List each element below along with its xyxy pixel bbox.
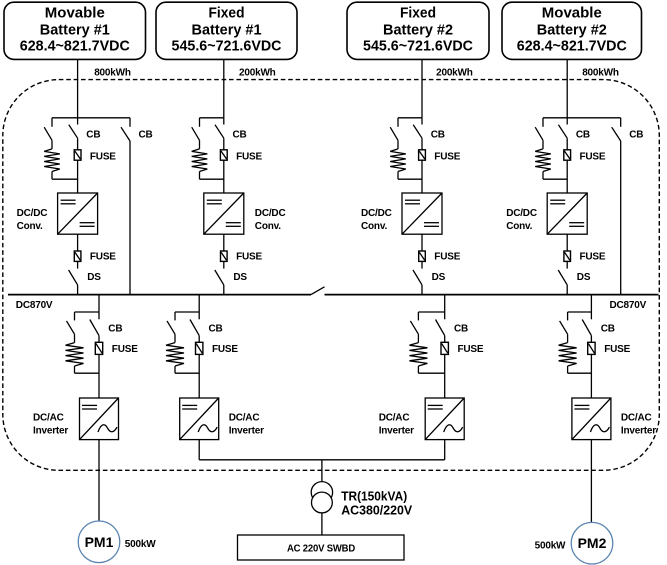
svg-text:545.6~721.6VDC: 545.6~721.6VDC xyxy=(172,38,282,55)
circuit breaker CB I2 xyxy=(198,312,200,319)
disconnect switch DS B4 xyxy=(566,261,568,268)
svg-text:DS: DS xyxy=(577,272,591,283)
svg-text:DC/AC: DC/AC xyxy=(379,413,410,424)
DC/AC inverter UI3 xyxy=(425,398,464,440)
reactor coil B3 xyxy=(397,140,399,149)
fuse F4a xyxy=(566,138,568,150)
fuse F4b xyxy=(566,234,568,251)
DC/DC converter U2 xyxy=(204,193,244,234)
CB contact (reactor path) I2 xyxy=(174,312,176,320)
svg-text:AC 220V SWBD: AC 220V SWBD xyxy=(287,543,355,554)
wire coil to rejoin node I3 xyxy=(417,366,419,373)
svg-text:628.4~821.7VDC: 628.4~821.7VDC xyxy=(20,38,130,55)
wire battery B2 to tee xyxy=(223,59,225,117)
circuit breaker CB B4 xyxy=(566,118,568,125)
CB contact (reactor path) B3 xyxy=(397,118,399,127)
wire tee xyxy=(52,117,130,119)
svg-text:FUSE: FUSE xyxy=(580,252,606,263)
wire fuse to DC/DC B4 xyxy=(566,160,568,193)
svg-text:FUSE: FUSE xyxy=(604,344,630,355)
fuse FI4 xyxy=(590,336,592,343)
svg-text:628.4~821.7VDC: 628.4~821.7VDC xyxy=(517,38,627,55)
wire tee xyxy=(418,311,444,313)
fuse F2b xyxy=(223,234,225,251)
wire fuse to DC/DC B3 xyxy=(421,160,423,193)
wire fuse to DC/DC B1 xyxy=(77,160,79,193)
DC870V bus right segment xyxy=(325,294,659,296)
wire bus to tee I3 xyxy=(444,295,446,312)
wire coil to rejoin node I2 xyxy=(174,366,176,373)
svg-text:800kWh: 800kWh xyxy=(582,68,619,79)
CB contact (reactor path) B2 xyxy=(199,118,201,127)
reactor coil I3 xyxy=(417,334,419,342)
fuse F3b xyxy=(421,234,423,251)
svg-text:TR(150kVA): TR(150kVA) xyxy=(341,488,407,503)
battery B2 box xyxy=(156,2,297,59)
DC/DC converter U1 xyxy=(58,193,98,234)
reactor coil B4 xyxy=(542,140,544,149)
svg-text:FUSE: FUSE xyxy=(90,151,116,162)
battery B1 box xyxy=(4,2,146,59)
svg-text:CB: CB xyxy=(209,323,223,334)
svg-text:DC870V: DC870V xyxy=(610,300,647,311)
wire fuse to inverter I4 xyxy=(590,354,592,398)
disconnect switch DS B1 xyxy=(77,261,79,268)
wire DS to bus B2 xyxy=(223,285,225,295)
svg-text:FUSE: FUSE xyxy=(434,252,460,263)
wire transformer to SWBD xyxy=(321,513,323,535)
svg-text:FUSE: FUSE xyxy=(236,252,262,263)
propulsion motor PM2 xyxy=(571,522,613,564)
wire bus to tee I2 xyxy=(198,295,200,312)
battery B4 box xyxy=(502,2,642,59)
svg-text:CB: CB xyxy=(139,130,153,141)
wire coil to rejoin node I1 xyxy=(74,366,76,373)
svg-text:CB: CB xyxy=(601,323,615,334)
svg-text:FUSE: FUSE xyxy=(434,151,460,162)
svg-text:Inverter: Inverter xyxy=(33,426,68,437)
svg-text:DC/DC: DC/DC xyxy=(17,208,48,219)
fuse FI3 xyxy=(444,336,446,343)
svg-text:Fixed: Fixed xyxy=(209,5,245,22)
wire tee xyxy=(75,311,100,313)
svg-text:500kW: 500kW xyxy=(125,539,156,550)
fuse F1a xyxy=(77,138,79,150)
svg-text:Battery #1: Battery #1 xyxy=(192,22,262,39)
svg-text:Battery #1: Battery #1 xyxy=(40,22,110,39)
svg-text:Movable: Movable xyxy=(45,5,105,22)
svg-text:PM1: PM1 xyxy=(85,534,114,550)
reactor coil I2 xyxy=(174,334,176,342)
svg-text:DS: DS xyxy=(87,272,101,283)
CB contact (reactor path) B1 xyxy=(51,118,53,127)
svg-text:Fixed: Fixed xyxy=(400,5,436,22)
svg-text:DC/DC: DC/DC xyxy=(361,208,392,219)
svg-text:CB: CB xyxy=(431,130,445,141)
svg-text:Conv.: Conv. xyxy=(17,221,43,232)
propulsion motor PM1 xyxy=(78,521,120,563)
wire tee xyxy=(543,117,621,119)
reactor coil I1 xyxy=(74,334,76,342)
disconnect switch DS B3 xyxy=(421,261,423,268)
wire tee xyxy=(175,311,199,313)
svg-text:DS: DS xyxy=(432,272,446,283)
circuit breaker CB B3 xyxy=(421,118,423,125)
wire tee xyxy=(568,311,592,313)
svg-text:CB: CB xyxy=(629,130,643,141)
dashed enclosure boundary xyxy=(3,80,660,471)
disconnect switch DS B2 xyxy=(223,261,225,268)
circuit breaker CB I3 xyxy=(444,312,446,319)
DC/AC inverter UI2 xyxy=(180,398,219,440)
svg-text:DC/AC: DC/AC xyxy=(229,413,260,424)
svg-text:Inverter: Inverter xyxy=(621,426,656,437)
bus tie disconnect xyxy=(311,287,325,295)
wire inverter I3 down xyxy=(444,440,446,460)
wire battery B3 to tee xyxy=(421,59,423,117)
svg-text:Movable: Movable xyxy=(542,5,602,22)
wire fuse to inverter I1 xyxy=(98,354,100,398)
svg-text:200kWh: 200kWh xyxy=(436,68,473,79)
wire bypass to bus B1 xyxy=(129,141,131,295)
transformer TR(150kVA) xyxy=(311,482,332,513)
fuse FI2 xyxy=(198,336,200,343)
wire fuse to DC/DC B2 xyxy=(223,160,225,193)
bypass circuit breaker CB B1 xyxy=(129,118,131,127)
svg-text:FUSE: FUSE xyxy=(212,344,238,355)
reactor coil I4 xyxy=(567,334,569,342)
svg-text:AC380/220V: AC380/220V xyxy=(341,503,412,518)
svg-text:CB: CB xyxy=(86,130,100,141)
fuse F1b xyxy=(77,234,79,251)
circuit breaker CB I1 xyxy=(98,312,100,319)
circuit breaker CB B2 xyxy=(223,118,225,125)
circuit breaker CB B1 xyxy=(77,118,79,125)
DC/DC converter U4 xyxy=(547,193,587,234)
svg-text:DC/DC: DC/DC xyxy=(255,208,286,219)
fuse F2a xyxy=(223,138,225,150)
wire coil to rejoin node B1 xyxy=(51,172,53,180)
fuse FI1 xyxy=(98,336,100,343)
wire DS to bus B3 xyxy=(421,285,423,295)
svg-text:DS: DS xyxy=(233,272,247,283)
wire inverter I1 to PM1 xyxy=(98,440,100,525)
CB contact (reactor path) B4 xyxy=(542,118,544,127)
wire bus to tee I1 xyxy=(98,295,100,312)
reactor coil B1 xyxy=(51,140,53,149)
wire coil to rejoin node B4 xyxy=(542,172,544,180)
wire DS to bus B1 xyxy=(77,285,79,295)
fuse F3a xyxy=(421,138,423,150)
svg-text:FUSE: FUSE xyxy=(580,151,606,162)
svg-text:200kWh: 200kWh xyxy=(239,68,276,79)
svg-text:Conv.: Conv. xyxy=(255,221,281,232)
svg-text:CB: CB xyxy=(454,323,468,334)
wire tee xyxy=(398,117,422,119)
wire fuse to inverter I3 xyxy=(444,354,446,398)
DC/AC inverter UI4 xyxy=(572,398,611,440)
wire fuse to inverter I2 xyxy=(198,354,200,398)
reactor coil B2 xyxy=(199,140,201,149)
svg-text:Inverter: Inverter xyxy=(379,426,414,437)
svg-text:DC870V: DC870V xyxy=(16,300,53,311)
svg-text:CB: CB xyxy=(576,130,590,141)
circuit breaker CB I4 xyxy=(590,312,592,319)
battery B3 box xyxy=(347,2,489,59)
svg-text:545.6~721.6VDC: 545.6~721.6VDC xyxy=(363,38,473,55)
svg-text:PM2: PM2 xyxy=(578,535,607,551)
wire link I2-I3 xyxy=(199,459,445,461)
wire DS to bus B4 xyxy=(566,285,568,295)
DC/DC converter U3 xyxy=(402,193,442,234)
svg-text:FUSE: FUSE xyxy=(458,344,484,355)
wire tee xyxy=(200,117,224,119)
svg-text:DC/DC: DC/DC xyxy=(506,208,537,219)
svg-text:FUSE: FUSE xyxy=(112,344,138,355)
wire bypass to bus B4 xyxy=(620,141,622,295)
svg-text:CB: CB xyxy=(233,130,247,141)
wire coil to rejoin node B2 xyxy=(199,172,201,180)
svg-text:500kW: 500kW xyxy=(535,540,566,551)
svg-text:Conv.: Conv. xyxy=(506,221,532,232)
bypass circuit breaker CB B4 xyxy=(620,118,622,127)
wire battery B1 to tee xyxy=(77,59,79,117)
wire coil to rejoin node I4 xyxy=(567,366,569,373)
wire battery B4 to tee xyxy=(566,59,568,117)
svg-text:CB: CB xyxy=(108,323,122,334)
svg-text:Inverter: Inverter xyxy=(229,426,264,437)
DC870V bus left segment xyxy=(8,294,311,296)
wire link to transformer xyxy=(321,460,323,482)
svg-text:DC/AC: DC/AC xyxy=(621,413,652,424)
wire bus to tee I4 xyxy=(590,295,592,312)
svg-text:800kWh: 800kWh xyxy=(94,68,131,79)
svg-text:Battery #2: Battery #2 xyxy=(383,22,453,39)
wire inverter I2 down xyxy=(198,440,200,460)
svg-text:Conv.: Conv. xyxy=(361,221,387,232)
wire coil to rejoin node B3 xyxy=(397,172,399,180)
AC 220V SWBD switchboard xyxy=(238,535,405,560)
CB contact (reactor path) I3 xyxy=(417,312,419,320)
svg-text:FUSE: FUSE xyxy=(236,151,262,162)
svg-text:DC/AC: DC/AC xyxy=(33,413,64,424)
CB contact (reactor path) I4 xyxy=(567,312,569,320)
wire inverter I4 to PM2 xyxy=(590,440,592,526)
DC/AC inverter UI1 xyxy=(80,398,119,440)
svg-text:Battery #2: Battery #2 xyxy=(537,22,607,39)
svg-text:FUSE: FUSE xyxy=(90,252,116,263)
CB contact (reactor path) I1 xyxy=(74,312,76,320)
